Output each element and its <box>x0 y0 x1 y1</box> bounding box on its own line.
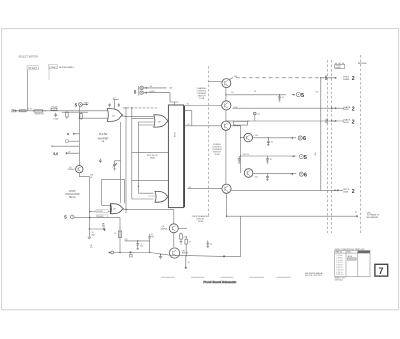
ground <box>159 255 162 259</box>
node CHOP OSCILLATOR label <box>65 191 80 199</box>
svg-text:2C2A: 2C2A <box>199 97 205 100</box>
resistor R6 label <box>90 175 94 179</box>
node net label lower <box>96 215 108 218</box>
node test point <box>254 112 261 121</box>
wire bus vertical 3 <box>132 108 154 199</box>
wire bus vertical 4 <box>139 122 154 193</box>
wire fold marks <box>161 276 291 278</box>
node input TRIGGER label <box>11 109 18 113</box>
svg-text:PHASE: PHASE <box>343 78 350 81</box>
wire Q3-Q7 vertical <box>225 130 227 184</box>
wire gate3 output long <box>123 208 174 210</box>
svg-text:SELECT MOTOR: SELECT MOTOR <box>19 57 39 59</box>
capacitor C10 <box>136 241 144 250</box>
wire tap line <box>52 145 79 147</box>
svg-text:2B2A: 2B2A <box>150 156 156 159</box>
resistor R8 <box>102 224 105 230</box>
capacitor C5 <box>278 95 284 101</box>
svg-text:Service: Service <box>358 61 367 65</box>
wire Q8 collector right <box>178 227 187 229</box>
svg-text:2 2N3906: 2 2N3906 <box>336 257 343 259</box>
svg-text:SHAPER: SHAPER <box>98 137 109 141</box>
node HYBRID CONTROL label <box>212 144 223 156</box>
svg-text:150 1%: 150 1% <box>243 154 249 156</box>
capacitor C4 <box>108 103 110 107</box>
svg-text:6 RES 1K: 6 RES 1K <box>336 267 343 269</box>
gate U2C <box>155 191 168 202</box>
wire row2 to connector <box>233 107 344 109</box>
svg-text:5: 5 <box>134 89 137 94</box>
resistor R4 <box>66 111 69 119</box>
transistor Q1 <box>222 79 231 88</box>
ground <box>88 237 91 238</box>
wire Q1 collector to connector (dashed) <box>230 76 321 79</box>
capacitor C1 <box>53 113 59 121</box>
transistor Q7 <box>222 184 231 193</box>
transistor Q9 <box>170 248 189 258</box>
node title block footnote <box>335 277 346 281</box>
wire gate2 lower input <box>139 122 154 125</box>
pin row4 exit <box>334 189 355 195</box>
wire oscillator feedback loop <box>102 179 125 205</box>
svg-text:6: 6 <box>304 172 307 178</box>
svg-text:.01: .01 <box>210 243 212 245</box>
wire gate3 column down <box>119 218 121 253</box>
svg-text:+5 MOT: +5 MOT <box>149 91 156 93</box>
svg-text:Focal Board Schematic: Focal Board Schematic <box>202 280 236 284</box>
node CHOP BLANKING label <box>192 215 209 223</box>
svg-text:5,6: 5,6 <box>53 152 58 156</box>
svg-text:START: START <box>28 67 37 70</box>
resistor R11 <box>114 231 122 237</box>
transistor Q5 <box>68 166 83 173</box>
svg-text:MOTOR CONTROL: MOTOR CONTROL <box>59 67 75 69</box>
gate U2B <box>154 115 169 127</box>
wire gate1 output to bus <box>122 115 126 117</box>
gate U2A pulse shaper <box>107 109 122 122</box>
wire gate top pullup <box>112 97 118 109</box>
capacitor C7 <box>238 156 241 163</box>
gate G3 chop <box>110 204 123 214</box>
node tap B <box>67 132 79 136</box>
resistor R13 <box>185 236 192 256</box>
svg-text:1 2N3904: 1 2N3904 <box>336 255 343 257</box>
node tap A labels 5,6 <box>53 150 79 156</box>
wire row3 to connector <box>247 120 344 122</box>
svg-text:PULSE: PULSE <box>52 107 59 109</box>
svg-text:MF1A: MF1A <box>69 196 76 199</box>
wire mid horizontal 1 <box>132 151 169 153</box>
svg-text:6: 6 <box>303 136 306 142</box>
capacitor C12 <box>148 234 154 253</box>
svg-text:5: 5 <box>301 93 304 99</box>
svg-text:.01: .01 <box>270 159 272 161</box>
svg-text:.01: .01 <box>271 142 273 144</box>
wire tap with arrow <box>89 224 105 231</box>
svg-text:2: 2 <box>352 76 355 82</box>
svg-text:DRIVE: DRIVE <box>343 109 350 111</box>
node margin note <box>305 272 323 277</box>
node sheet number box 7 <box>375 264 388 276</box>
wire Q3 to Q4 <box>231 126 244 138</box>
svg-text:LS74: LS74 <box>173 132 175 138</box>
svg-text:CHOP: CHOP <box>69 191 76 193</box>
wire IC top stub <box>171 102 179 105</box>
svg-text:1N4148: 1N4148 <box>182 253 189 255</box>
svg-text:DATA: DATA <box>343 190 348 193</box>
svg-text:RESISTOR: RESISTOR <box>35 113 45 115</box>
svg-text:100pF: 100pF <box>53 118 59 120</box>
svg-text:MECHANISM: MECHANISM <box>367 216 379 219</box>
svg-text:2: 2 <box>352 119 355 125</box>
wire stub below label <box>48 68 50 80</box>
node junction <box>89 228 90 229</box>
wire ref to gate input <box>74 217 89 219</box>
svg-text:7: 7 <box>379 266 384 276</box>
wire Q6 row to ref 6b <box>253 173 296 178</box>
wire dashed section boundary <box>207 66 209 216</box>
transistor Q8 <box>161 224 179 233</box>
wire left bus vertical <box>88 176 90 236</box>
wire top dashes <box>335 62 344 64</box>
wire vertical feed <box>78 106 80 165</box>
wire gate2 output <box>167 120 168 122</box>
svg-text:5: 5 <box>304 155 307 161</box>
wire Q8-Q9 vertical <box>173 233 175 247</box>
node junctions on bus <box>125 107 139 187</box>
svg-text:SECTION 4 FOR TEST: SECTION 4 FOR TEST <box>305 275 322 277</box>
wire bus vertical 1 <box>120 122 122 203</box>
resistor R12 <box>180 233 188 245</box>
node ground arrow <box>355 212 380 219</box>
node ref out 6b <box>291 172 307 178</box>
svg-text:SHEET 7 OF 9: SHEET 7 OF 9 <box>335 277 346 279</box>
pin row2 exit <box>331 106 355 113</box>
svg-text:.1: .1 <box>125 240 126 242</box>
wire bus top horizontal <box>123 107 157 109</box>
svg-text:(R2): (R2) <box>92 234 96 236</box>
wire Q5 emitter to bus <box>79 173 89 177</box>
wire cross line <box>62 111 88 113</box>
node MOTOR CONTROL label <box>48 65 75 69</box>
svg-text:3 74LS00: 3 74LS00 <box>336 260 343 262</box>
svg-text:4 74LS74: 4 74LS74 <box>336 262 343 264</box>
pin row3 exit <box>326 119 355 126</box>
svg-text:2: 2 <box>352 189 355 195</box>
resistor R2 <box>34 110 45 116</box>
wire mid horizontal 2 <box>132 179 169 181</box>
table col1 rows <box>336 255 343 276</box>
title block table <box>335 251 370 277</box>
svg-text:150: 150 <box>255 135 258 137</box>
wire Q1-Q2 vertical <box>225 88 227 101</box>
wire main input line <box>12 110 107 112</box>
wire Q7 row to connector <box>231 189 343 191</box>
node ref 5 circle-dot <box>64 215 74 220</box>
svg-text:PULSE: PULSE <box>99 132 108 136</box>
node junction <box>240 137 241 138</box>
svg-text:DRIVE: DRIVE <box>343 122 350 124</box>
wire connector dashed edge <box>360 55 362 233</box>
wire gate2 upper input <box>126 117 154 119</box>
node junctions bottom rail <box>119 252 225 258</box>
wire gate G3 lower input <box>89 211 110 213</box>
wire Q2-Q3 vertical <box>225 110 227 121</box>
wire gate1 lower input <box>79 117 107 119</box>
svg-text:7 RES 150: 7 RES 150 <box>336 269 343 271</box>
node ref out 6 <box>291 136 307 142</box>
wire row ref5b <box>240 154 297 157</box>
svg-text:P1: P1 <box>355 212 357 214</box>
wire bus vertical 2 <box>125 108 127 213</box>
node junction <box>45 110 46 111</box>
svg-text:DRIVE: DRIVE <box>336 67 342 69</box>
wire IC right row1 <box>185 104 222 106</box>
node tap circled 2 <box>65 140 79 143</box>
svg-text:OSCILLATOR: OSCILLATOR <box>65 193 80 196</box>
node ref 5 circle-X <box>75 103 90 108</box>
svg-text:DWG 050-2: DWG 050-2 <box>335 279 344 281</box>
wire Q4-Q6 vertical <box>240 138 242 173</box>
wire row1 to ref <box>225 91 286 95</box>
node input ref arrow <box>108 251 113 254</box>
capacitor C6 <box>267 137 273 145</box>
svg-text:2: 2 <box>352 107 355 113</box>
capacitor C9 <box>266 173 269 180</box>
resistor R10 on row3 <box>226 121 250 125</box>
node ref out 5b <box>292 155 307 161</box>
node FLIP-FLOP label <box>147 155 158 160</box>
node CHANNEL CONTROL label <box>197 87 208 100</box>
resistor R1 <box>19 108 32 111</box>
wire net 7Y <box>124 239 150 242</box>
svg-text:150: 150 <box>255 177 258 179</box>
pin row1 exit <box>320 76 355 83</box>
wire bottom main rail <box>114 253 224 257</box>
svg-text:B: B <box>67 132 69 136</box>
node PULSE SHAPER label <box>98 132 109 143</box>
svg-text:2C2B: 2C2B <box>214 154 220 156</box>
wire IC right row2 <box>185 111 222 126</box>
wire Q4 row to ref 6 <box>253 135 297 138</box>
svg-text:.01: .01 <box>282 97 284 99</box>
ground <box>185 256 191 269</box>
wire connector dashed pin column B <box>331 60 333 233</box>
node junction <box>279 94 280 95</box>
transistor Q4 <box>244 133 253 142</box>
transistor Q3 <box>221 121 230 130</box>
resistor R3 <box>51 107 58 111</box>
capacitor C8 <box>266 156 272 163</box>
node ref out 5 <box>292 93 304 99</box>
svg-text:2N3904: 2N3904 <box>68 169 75 171</box>
capacitor C13 <box>206 240 212 247</box>
wire connector dashed pin column A <box>327 60 329 233</box>
node component tag <box>125 240 132 257</box>
wire chop lower net <box>89 217 120 219</box>
wire START to input line <box>26 70 28 111</box>
node SELECT MOTOR label <box>19 57 39 59</box>
wire Q1 base <box>208 81 222 83</box>
svg-text:START: START <box>49 66 58 69</box>
node ref pair 5 <box>134 86 172 102</box>
wire gate4 inputs <box>148 195 155 197</box>
table col2 entry <box>347 255 356 261</box>
svg-text:2F2A: 2F2A <box>198 220 204 223</box>
svg-text:(5VGX): (5VGX) <box>97 216 104 218</box>
wire Q8 base drop <box>173 209 175 224</box>
node net label upper <box>96 210 108 213</box>
transistor Q6 <box>244 169 253 178</box>
wire Q7 base <box>188 187 222 189</box>
IC U1 flip-flop body <box>168 105 184 208</box>
svg-text:5 1N4148: 5 1N4148 <box>336 265 343 267</box>
capacitor C14 trimmer <box>112 161 120 170</box>
capacitor C2 <box>99 159 102 163</box>
resistor R5 <box>80 112 83 120</box>
svg-text:1%: 1% <box>90 177 93 179</box>
svg-text:2N3906: 2N3906 <box>161 228 168 230</box>
table header shaded cell <box>358 251 370 253</box>
svg-text:INPUT: INPUT <box>11 112 18 114</box>
wire ground return path <box>224 216 358 256</box>
resistor R7 label <box>90 232 95 249</box>
node connector J2 label <box>335 64 345 69</box>
node +15V bus <box>320 78 322 191</box>
transistor Q2 <box>222 101 231 110</box>
wire Q7 emitter down <box>226 193 228 216</box>
node START label <box>27 66 38 70</box>
svg-text:10p: 10p <box>151 236 154 238</box>
svg-text:+MTR: +MTR <box>84 103 90 105</box>
svg-text:(5VGX): (5VGX) <box>97 211 104 213</box>
resistor R9 <box>118 103 120 107</box>
